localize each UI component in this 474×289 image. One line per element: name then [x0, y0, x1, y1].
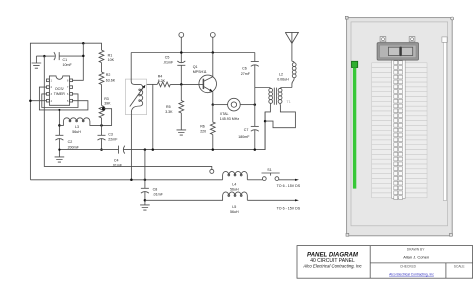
capacitor C1	[44, 52, 83, 67]
crystal XTAL 145.93 MHz	[220, 98, 255, 121]
node C3 bottom on rail A2	[100, 148, 103, 151]
terminal circle above C5	[179, 33, 184, 63]
svg-text:R1: R1	[108, 54, 113, 58]
wire T1 primary top to C-line	[255, 88, 271, 90]
inductor L3 56uH	[59, 118, 101, 134]
svg-text:.01mF: .01mF	[153, 193, 164, 197]
svg-text:C1: C1	[63, 58, 68, 62]
node C7 bottom on rail A2	[254, 148, 256, 151]
inductor L5 56uH	[145, 192, 247, 214]
wire pin4 to left vertical	[29, 99, 46, 102]
resistor R3 39K potentiometer	[99, 97, 111, 118]
ground G4 below C8	[140, 205, 150, 210]
inductor L4 56uH	[223, 171, 248, 191]
wire R2-R3	[101, 85, 103, 106]
node T1 loop junction	[264, 120, 267, 123]
ground G3 below R5	[177, 130, 187, 135]
svg-text:DRAWN BY: DRAWN BY	[407, 247, 425, 251]
wire upper output arrow TO 6 - 15V DS	[277, 179, 301, 188]
ground G2 below C2	[55, 157, 65, 162]
wire rail D middle top	[131, 52, 255, 54]
svg-text:200mF: 200mF	[68, 145, 80, 149]
panel corner marker top-right	[451, 17, 454, 20]
green indicator bar	[353, 68, 356, 189]
U1 pins	[47, 79, 73, 102]
svg-text:R6: R6	[200, 125, 205, 129]
wire R4 to base node	[170, 83, 203, 85]
svg-text:TO 6 - 15V DS: TO 6 - 15V DS	[277, 206, 301, 210]
node collector rail D junction	[212, 51, 215, 54]
ground G1 near C1	[32, 56, 45, 68]
wire R3 to C3	[101, 118, 103, 135]
inductor L1 coil	[131, 53, 143, 180]
capacitor C4 .01mF	[112, 146, 125, 168]
svg-text:C4: C4	[114, 158, 119, 162]
wire C6 to C7	[254, 65, 256, 126]
node L1 wire on rail C	[130, 179, 133, 182]
terminal circle above Q1 collector	[210, 33, 215, 53]
node C5 rail D junction	[180, 51, 183, 54]
svg-text:C7: C7	[244, 128, 249, 132]
svg-text:TIMER: TIMER	[54, 92, 66, 96]
capacitor C6 27mF	[241, 53, 259, 76]
capacitor C2 200mF	[55, 135, 79, 157]
node base junction	[180, 83, 183, 86]
svg-text:Alco Electrical Contracting, I: Alco Electrical Contracting, Inc	[389, 273, 434, 277]
node R6 bottom on rail A2	[212, 148, 215, 151]
wire lower output arrow TO 6 - 15V DS	[247, 199, 300, 210]
wire T1 right winding bottom loop	[265, 103, 295, 128]
op-amp U1 IC body OCS/TIMER	[49, 76, 69, 105]
capacitor C3 22mF	[98, 133, 119, 150]
breaker row cells	[372, 63, 427, 198]
wire pin3 to inner loop	[42, 94, 78, 108]
node C1 right junction	[82, 55, 85, 58]
svg-text:R4: R4	[158, 74, 163, 78]
capacitor C8 .01mF	[141, 187, 164, 205]
svg-text:56uH: 56uH	[230, 210, 239, 214]
breaker handle squares	[394, 61, 403, 200]
panel outer enclosure	[347, 18, 453, 236]
panel inner frame	[351, 22, 448, 226]
variable inductor L1 box	[125, 79, 146, 115]
svg-text:S1: S1	[267, 168, 271, 172]
wire R3 wiper return loop	[100, 109, 111, 127]
svg-text:.01mF: .01mF	[112, 164, 123, 168]
svg-text:6.2K: 6.2K	[158, 79, 166, 83]
svg-text:Alco Electrical Contracting, I: Alco Electrical Contracting, Inc	[302, 263, 362, 268]
wire pin2 to outer loop	[39, 87, 88, 110]
panel right white strip	[442, 37, 447, 201]
resistor R5 3.3K	[165, 84, 184, 129]
green indicator square	[352, 61, 358, 67]
capacitor C7 180mF	[238, 126, 258, 149]
terminal circle right end of rail B	[210, 169, 214, 173]
svg-text:OCS/: OCS/	[55, 87, 64, 91]
svg-text:SCALE: SCALE	[454, 265, 466, 269]
wire branch from loop down to L3/C2 junction	[58, 109, 60, 135]
svg-text:C3: C3	[108, 133, 113, 137]
wire bottom rail C	[30, 179, 262, 181]
svg-text:CHECKED: CHECKED	[400, 265, 417, 269]
svg-text:L4: L4	[232, 183, 236, 187]
svg-text:L5: L5	[232, 205, 236, 209]
breaker center spine	[392, 60, 406, 199]
wire from C1 junction down left side to mid rail B	[44, 56, 212, 169]
resistor R1 10K	[99, 50, 114, 63]
wire T1 left winding bottom tail	[265, 103, 271, 149]
node R3 wiper dot	[102, 107, 105, 110]
switch S1	[262, 168, 280, 180]
main breaker terminal right	[409, 37, 415, 42]
wire T1 secondary top to L2	[280, 88, 292, 90]
svg-text:L2: L2	[279, 72, 283, 76]
node C8 top on rail A2	[144, 148, 147, 151]
svg-text:C2: C2	[68, 140, 73, 144]
svg-text:145.93 MHz: 145.93 MHz	[220, 117, 240, 121]
svg-text:L3: L3	[75, 125, 79, 129]
svg-text:56uH: 56uH	[72, 130, 81, 134]
node C8 wire on rail C	[144, 179, 147, 182]
svg-text:C5: C5	[165, 56, 170, 60]
wire bottom rail A2 with C4 gap	[58, 112, 265, 151]
svg-text:220: 220	[200, 130, 206, 134]
wire emitter rail to crystal	[213, 104, 228, 106]
svg-text:T1: T1	[287, 100, 291, 104]
resistor R4 6.2K	[157, 74, 170, 87]
svg-text:C8: C8	[153, 187, 158, 191]
wire tap from R4 left down to rail A2	[152, 84, 155, 150]
svg-text:R5: R5	[166, 105, 171, 109]
panel corner marker bottom-left	[346, 233, 349, 236]
svg-text:MPSH11: MPSH11	[193, 70, 207, 74]
svg-text:22mF: 22mF	[108, 137, 118, 141]
transistor Q1 MPSH11	[193, 53, 217, 105]
svg-text:39K: 39K	[104, 102, 111, 106]
main breaker terminal left	[380, 37, 386, 42]
panel corner marker top-left	[345, 16, 348, 19]
title block scale cell	[454, 265, 466, 269]
main breaker body	[377, 43, 418, 60]
title text PANEL DIAGRAM	[302, 251, 362, 268]
svg-text:10mF: 10mF	[63, 63, 73, 67]
svg-text:56uH: 56uH	[230, 188, 239, 192]
node C8 to L5 junction	[144, 199, 147, 202]
wire C8 riser	[144, 150, 146, 189]
svg-text:0.06uH: 0.06uH	[277, 78, 289, 82]
svg-text:Q1: Q1	[193, 65, 198, 69]
wire IC pin8 riser to rail A	[73, 43, 84, 80]
inductor L2 0.06uH	[277, 61, 296, 87]
svg-text:C6: C6	[242, 67, 247, 71]
svg-text:.01mF: .01mF	[163, 61, 174, 65]
panel corner marker bottom-right	[450, 233, 453, 236]
svg-text:R3: R3	[104, 97, 109, 101]
svg-text:TO 6 - 15V DS: TO 6 - 15V DS	[277, 184, 301, 188]
node junction top rail	[82, 42, 85, 45]
node emitter rail junction	[212, 103, 215, 106]
L1 wiper arrow	[130, 85, 146, 107]
capacitor C5 .01mF	[163, 56, 185, 85]
wire L1 wiper to R4	[147, 83, 158, 85]
title block checked cell	[389, 265, 434, 277]
svg-text:XTAL: XTAL	[220, 112, 229, 116]
wire R1-R2	[101, 63, 103, 72]
svg-text:Allan J. Cohen: Allan J. Cohen	[403, 254, 429, 259]
transformer T1	[269, 88, 291, 105]
svg-text:3.3K: 3.3K	[165, 110, 173, 114]
node crystal to C-line junction	[254, 103, 256, 106]
resistor R6 220	[200, 105, 215, 150]
svg-text:10K: 10K	[108, 58, 115, 62]
svg-text:R2: R2	[106, 73, 111, 77]
svg-text:63.6K: 63.6K	[106, 78, 116, 82]
resistor R2 63.6K	[99, 72, 116, 85]
node C1 left junction	[43, 55, 46, 58]
svg-text:180mF: 180mF	[238, 135, 250, 139]
svg-text:27mF: 27mF	[241, 72, 251, 76]
title block drawn-by cell	[403, 247, 429, 259]
title block frame	[297, 246, 473, 279]
wire top rail A with left loop down to bottom rail C	[30, 43, 101, 180]
antenna	[285, 32, 298, 61]
node L3 left junction	[58, 124, 61, 127]
